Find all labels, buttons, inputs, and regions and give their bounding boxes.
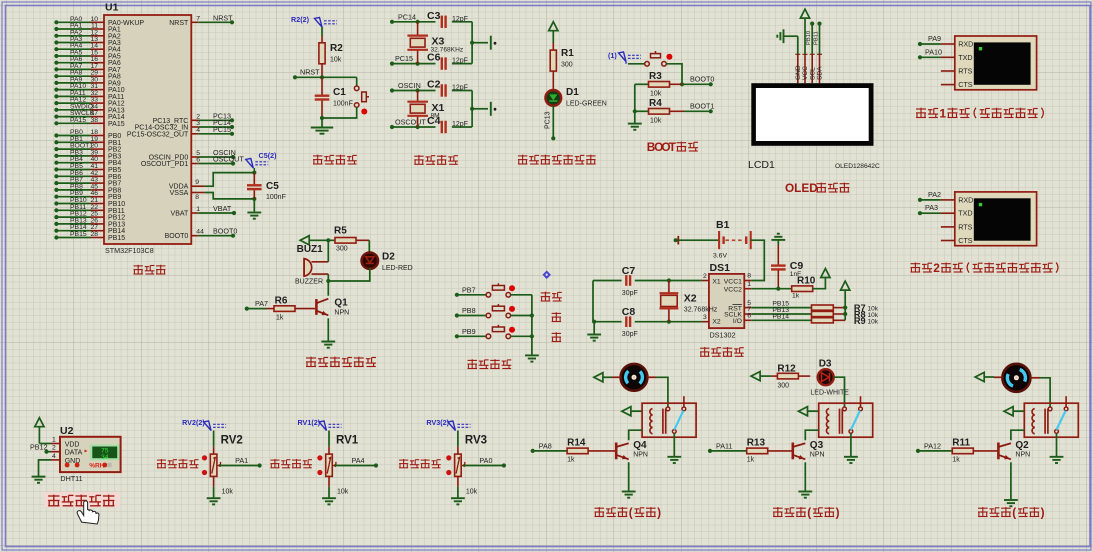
wire emitter to ground Q3 bbox=[804, 462, 806, 490]
node PC13 pin2 bbox=[153, 111, 234, 125]
potentiometer RV3 10k bbox=[446, 435, 487, 477]
node PC14 pin3 bbox=[135, 118, 235, 132]
svg-text:PA15: PA15 bbox=[70, 117, 86, 124]
svg-text:1k: 1k bbox=[567, 457, 575, 464]
svg-text:C1: C1 bbox=[333, 87, 346, 98]
svg-text:LED-WHITE: LED-WHITE bbox=[810, 390, 849, 397]
svg-text:44: 44 bbox=[196, 229, 204, 236]
svg-text:2: 2 bbox=[52, 445, 56, 452]
svg-text:VBAT: VBAT bbox=[213, 204, 232, 213]
svg-text:▸: ▸ bbox=[85, 449, 88, 455]
label crystal circuit 晶振电路 bbox=[414, 155, 458, 164]
resistor R4 10k bbox=[635, 98, 684, 125]
wire coil to collector Q2 bbox=[1011, 430, 1024, 440]
label 继电器(通风) bbox=[595, 506, 662, 520]
wire relay common to ground Q4 bbox=[673, 433, 675, 456]
svg-text:1: 1 bbox=[52, 437, 56, 444]
svg-text:%RH: %RH bbox=[89, 462, 104, 469]
wire button to C1 bottom bbox=[322, 107, 357, 118]
svg-text:X2: X2 bbox=[684, 293, 697, 305]
node blue junction marker bbox=[542, 270, 550, 278]
wire PB15 row bbox=[751, 301, 811, 308]
wire PB12 to DATA bbox=[30, 442, 51, 454]
potentiometer RV2 10k bbox=[202, 435, 243, 477]
svg-text:RV1: RV1 bbox=[336, 435, 359, 447]
probe R2(2) bbox=[291, 15, 337, 27]
svg-text:1k: 1k bbox=[276, 315, 284, 322]
display virtual terminal 2 bbox=[918, 190, 1037, 246]
wire R4 to BOOT1 terminal bbox=[684, 102, 714, 114]
node VSSA pin8 bbox=[170, 190, 205, 201]
svg-text:RV3: RV3 bbox=[465, 435, 487, 447]
svg-text:8: 8 bbox=[195, 194, 199, 201]
svg-text:(: ( bbox=[629, 506, 633, 520]
svg-text:3: 3 bbox=[703, 314, 707, 321]
svg-text:6: 6 bbox=[747, 313, 751, 320]
svg-text:10k: 10k bbox=[650, 118, 662, 125]
svg-text:U2: U2 bbox=[60, 425, 74, 437]
node PA port pins PA0-PA15 wires bbox=[54, 16, 144, 128]
svg-text:PA4: PA4 bbox=[352, 456, 365, 465]
svg-text:PB9: PB9 bbox=[462, 327, 476, 336]
svg-text:RTS: RTS bbox=[958, 222, 972, 231]
svg-text:D3: D3 bbox=[819, 359, 832, 370]
resistor R5 300 bbox=[334, 226, 369, 253]
capacitor C1 100nF bbox=[315, 77, 353, 120]
svg-text:(1): (1) bbox=[608, 51, 617, 60]
power arrow coil Q2 bbox=[1004, 407, 1024, 416]
svg-text:10k: 10k bbox=[222, 489, 234, 496]
power arrow OLED VCC bbox=[800, 9, 809, 18]
label BOOT circuit BOOT电路 bbox=[647, 140, 698, 154]
svg-text:X1: X1 bbox=[712, 278, 721, 285]
svg-text:R2: R2 bbox=[330, 43, 343, 54]
resistor R6 1k with PA7 bbox=[245, 296, 315, 322]
wire PB14 row bbox=[751, 313, 811, 320]
label 光照调节 bbox=[270, 459, 312, 468]
svg-text:2: 2 bbox=[703, 273, 707, 280]
ground relay common Q3 bbox=[844, 457, 858, 463]
crystal X2 32.768kHz bbox=[660, 278, 718, 323]
node NRST junction bbox=[293, 68, 357, 80]
ground BOOT circuit bbox=[628, 124, 642, 130]
wire NRST to button bbox=[356, 77, 358, 86]
LED D2 LED-RED bbox=[362, 252, 413, 272]
svg-text:VBAT: VBAT bbox=[171, 211, 189, 218]
svg-text:PB14: PB14 bbox=[772, 313, 789, 320]
label 减 bbox=[552, 332, 562, 341]
label R9 values bbox=[854, 316, 879, 326]
wire D2 to collector node bbox=[326, 268, 370, 283]
svg-text:VCC2: VCC2 bbox=[724, 286, 742, 293]
svg-text:PC15: PC15 bbox=[213, 125, 231, 134]
node BOOT0 pin44 bbox=[165, 227, 238, 241]
svg-text:): ) bbox=[657, 506, 661, 520]
svg-text:PA7: PA7 bbox=[255, 299, 268, 308]
svg-text:3.6V: 3.6V bbox=[713, 253, 727, 260]
ground RV3 bbox=[451, 498, 465, 504]
chip U2 DHT11 humidity sensor bbox=[51, 425, 121, 483]
svg-text:100nF: 100nF bbox=[266, 194, 286, 201]
resistor R1 300 bbox=[550, 48, 574, 71]
svg-text:): ) bbox=[836, 506, 840, 520]
wire power to R1 bbox=[552, 31, 554, 50]
svg-text:X2: X2 bbox=[712, 319, 721, 326]
svg-text:RV2: RV2 bbox=[221, 435, 243, 447]
svg-text:4: 4 bbox=[52, 453, 56, 460]
svg-text:PA9: PA9 bbox=[928, 34, 941, 43]
power arrow R10 bbox=[821, 269, 830, 278]
wire R1 to D1 bbox=[552, 71, 554, 90]
wire RV1 to ground bbox=[329, 476, 349, 497]
label 气体调节 bbox=[157, 459, 199, 468]
svg-text:NPN: NPN bbox=[633, 452, 648, 459]
svg-text:1k: 1k bbox=[747, 457, 755, 464]
svg-text:VCC: VCC bbox=[802, 66, 809, 80]
label OLED显示屏 bbox=[785, 181, 849, 195]
svg-text:PB15: PB15 bbox=[70, 231, 87, 238]
transistor Q1 NPN bbox=[315, 298, 349, 317]
svg-text:300: 300 bbox=[561, 62, 573, 69]
svg-text:OSCOUT: OSCOUT bbox=[213, 155, 244, 164]
ground C9 inverted bbox=[771, 234, 785, 240]
svg-text:OSCOUT_PD1: OSCOUT_PD1 bbox=[141, 161, 189, 168]
wire R7R8R9 common vertical bbox=[843, 290, 847, 320]
wire button to BOOT0 node bbox=[666, 64, 682, 85]
svg-text:PA11: PA11 bbox=[716, 441, 733, 450]
resistor R14 1k bbox=[531, 438, 615, 464]
svg-text:C3: C3 bbox=[427, 10, 441, 22]
svg-text:(: ( bbox=[1012, 506, 1016, 520]
svg-text:BOOT0: BOOT0 bbox=[690, 75, 714, 84]
svg-text:RXD: RXD bbox=[958, 195, 973, 204]
wire RV2 to ground bbox=[214, 476, 234, 497]
resistor R9 10k bbox=[812, 318, 846, 323]
svg-text:R13: R13 bbox=[747, 438, 766, 449]
svg-text:RV2(2): RV2(2) bbox=[182, 418, 205, 427]
svg-text:R11: R11 bbox=[952, 438, 970, 449]
wire R3 to R4 vertical bbox=[633, 84, 637, 113]
ground emitter Q3 bbox=[798, 492, 812, 498]
potentiometer RV1 10k bbox=[317, 435, 358, 477]
wire VSSA to C5 bottom bbox=[205, 193, 255, 199]
label 继电器(补光) bbox=[773, 506, 840, 520]
ground keys bbox=[525, 355, 539, 361]
LCD1 pin stubs GND VCC SCL SDA bbox=[795, 54, 824, 83]
wire OLED SCL pin PB10 bbox=[806, 22, 815, 55]
wire keys common vertical bbox=[530, 295, 534, 355]
svg-text:C5: C5 bbox=[266, 181, 279, 192]
svg-text:PC14: PC14 bbox=[398, 12, 416, 21]
svg-text:R10: R10 bbox=[797, 276, 816, 287]
wire probe to R2 bbox=[321, 27, 323, 43]
svg-text:VSSA: VSSA bbox=[170, 190, 189, 197]
label 独立按键 bbox=[468, 359, 512, 368]
svg-text:12pF: 12pF bbox=[452, 85, 468, 92]
relay Q4 coil contacts bbox=[642, 396, 696, 437]
svg-text:PA8: PA8 bbox=[539, 441, 552, 450]
wire probe to RV2 bbox=[213, 431, 215, 455]
wire wiper RV1 to PA4 bbox=[332, 456, 378, 468]
probe RV2(2) bbox=[182, 418, 226, 431]
chip DS1 DS1302 clock bbox=[702, 262, 751, 340]
svg-text:1: 1 bbox=[939, 107, 946, 121]
label R8 values bbox=[854, 309, 879, 319]
ground OLED bbox=[777, 29, 783, 43]
node VBAT pin1 bbox=[171, 204, 237, 218]
svg-text:8: 8 bbox=[747, 273, 751, 280]
wire RV3 to ground bbox=[458, 476, 478, 497]
resistor R2 10k bbox=[319, 43, 343, 64]
capacitor C9 1nF bbox=[771, 240, 803, 289]
svg-text:1k: 1k bbox=[952, 457, 960, 464]
power arrow for D1 bbox=[549, 22, 558, 31]
transistor Q3 NPN bbox=[792, 440, 825, 459]
wire emitter to ground Q4 bbox=[628, 462, 630, 490]
svg-text:10k: 10k bbox=[330, 57, 342, 64]
svg-text:10k: 10k bbox=[868, 319, 879, 326]
svg-text:PC15-OSC32_OUT: PC15-OSC32_OUT bbox=[127, 131, 189, 138]
svg-text:STM32F103C8: STM32F103C8 bbox=[105, 246, 154, 255]
wire relay common to ground Q3 bbox=[850, 433, 852, 456]
button key PB8 bbox=[455, 304, 532, 318]
ground clock left bbox=[587, 322, 601, 341]
ground emitter Q2 bbox=[1004, 500, 1018, 506]
svg-text:C2: C2 bbox=[427, 79, 441, 91]
wire C5 to ground bbox=[253, 199, 255, 212]
wire GND pin DHT11 bbox=[39, 460, 52, 476]
svg-text:10k: 10k bbox=[466, 489, 478, 496]
wire coil to collector Q3 bbox=[805, 430, 818, 440]
wire PB13 row bbox=[751, 307, 811, 314]
ground reset circuit bbox=[311, 128, 333, 134]
power arrow motor1 bbox=[594, 373, 621, 382]
node PC15 pin4 bbox=[127, 125, 234, 139]
power arrow coil Q4 bbox=[622, 407, 642, 416]
svg-text:R6: R6 bbox=[275, 296, 288, 307]
transistor Q4 NPN bbox=[615, 440, 648, 459]
probe RV1(2) bbox=[298, 418, 342, 431]
probe C5(2) bbox=[246, 151, 277, 173]
svg-text:U1: U1 bbox=[105, 2, 119, 14]
svg-text:DHT11: DHT11 bbox=[60, 474, 82, 483]
ground relay common Q4 bbox=[667, 457, 681, 463]
capacitor C5 100nF bbox=[247, 171, 286, 202]
svg-text:PA15: PA15 bbox=[108, 121, 125, 128]
wire probe to RV3 bbox=[457, 431, 459, 455]
svg-text:BUZZER: BUZZER bbox=[295, 279, 323, 286]
svg-text:BUZ1: BUZ1 bbox=[297, 244, 324, 255]
svg-text:SCL: SCL bbox=[809, 67, 816, 80]
motor pump relay3 bbox=[1002, 364, 1030, 392]
svg-text:DATA: DATA bbox=[65, 450, 83, 457]
svg-text:RXD: RXD bbox=[958, 40, 973, 49]
svg-text:B1: B1 bbox=[716, 219, 730, 231]
node BOOT0 junction bbox=[680, 75, 714, 87]
wire D3 to relay NO bbox=[834, 377, 845, 407]
svg-text:300: 300 bbox=[777, 383, 789, 390]
svg-text:T: T bbox=[669, 140, 677, 154]
cursor hand icon bbox=[77, 501, 99, 524]
svg-text:38: 38 bbox=[90, 117, 98, 124]
svg-text:D2: D2 bbox=[382, 252, 395, 263]
svg-text:10k: 10k bbox=[337, 489, 349, 496]
svg-text:LED-RED: LED-RED bbox=[382, 265, 413, 272]
svg-text:): ) bbox=[1041, 506, 1045, 520]
ground Q1 bbox=[321, 342, 335, 348]
label R7 values bbox=[854, 303, 879, 313]
svg-text:12pF: 12pF bbox=[452, 58, 468, 65]
node NRST pin7 bbox=[169, 13, 234, 27]
wire OLED GND pin bbox=[797, 36, 799, 54]
svg-text:PC13: PC13 bbox=[545, 111, 552, 129]
resistor R3 10k bbox=[635, 71, 682, 98]
wire VDDA to C5 top bbox=[205, 173, 255, 187]
svg-text:32.768KHz: 32.768KHz bbox=[431, 47, 464, 54]
wire motor1 to relay NO bbox=[647, 377, 668, 407]
wire emitter to ground Q2 bbox=[1010, 462, 1012, 499]
wire probe to RV1 bbox=[328, 431, 330, 455]
svg-text:1: 1 bbox=[196, 206, 200, 213]
svg-text:PA12: PA12 bbox=[924, 441, 941, 450]
node OSCIN pin5 bbox=[149, 148, 236, 162]
svg-text:DS1: DS1 bbox=[710, 262, 731, 274]
svg-text:PA3: PA3 bbox=[925, 203, 938, 212]
svg-text:9: 9 bbox=[195, 179, 199, 186]
svg-text:LCD1: LCD1 bbox=[748, 159, 775, 171]
label 加 bbox=[552, 312, 562, 321]
svg-text:R9: R9 bbox=[854, 316, 866, 326]
wire OLED VCC pin bbox=[804, 18, 806, 54]
crystal X3 32.768KHz with C3 C6 bbox=[390, 10, 497, 70]
svg-text:NRST: NRST bbox=[169, 20, 189, 27]
button BOOT select bbox=[626, 51, 672, 66]
wire R2 to NRST node bbox=[321, 64, 323, 78]
power arrow R7R8R9 bbox=[841, 281, 850, 290]
svg-text:2: 2 bbox=[933, 261, 940, 275]
resistor R7 10k bbox=[812, 305, 846, 310]
svg-text:RV1(2): RV1(2) bbox=[298, 418, 321, 427]
probe (1) bbox=[608, 51, 641, 62]
svg-text:C8: C8 bbox=[622, 306, 636, 318]
svg-text:C5(2): C5(2) bbox=[259, 151, 278, 160]
label 水位调节 bbox=[399, 459, 441, 468]
svg-text:1: 1 bbox=[747, 281, 751, 288]
svg-text:I/O: I/O bbox=[733, 318, 742, 325]
svg-text:NPN: NPN bbox=[1015, 452, 1030, 459]
svg-text:BOOT1: BOOT1 bbox=[690, 102, 714, 111]
transistor Q2 NPN bbox=[997, 440, 1030, 459]
wire VCC2 row bbox=[751, 287, 792, 291]
label 串口2窗口（模拟语音识别端） bbox=[911, 261, 1059, 275]
wire R5 to D2 bbox=[368, 240, 370, 253]
label main chip 主芯片 bbox=[134, 265, 166, 274]
svg-text:PB15: PB15 bbox=[108, 235, 125, 242]
svg-text:Q3: Q3 bbox=[810, 440, 824, 451]
battery B1 3.6V bbox=[674, 219, 751, 260]
ground RV2 bbox=[207, 498, 221, 504]
svg-text:34: 34 bbox=[101, 454, 109, 461]
svg-text:R3: R3 bbox=[649, 71, 662, 82]
svg-text:PA2: PA2 bbox=[928, 190, 941, 199]
svg-text:12pF: 12pF bbox=[452, 16, 468, 23]
svg-text:300: 300 bbox=[336, 246, 348, 253]
svg-text:GND: GND bbox=[795, 65, 802, 80]
label 声光报警电路 bbox=[306, 357, 376, 367]
wire wiper RV2 to PA1 bbox=[217, 456, 262, 468]
svg-text:Q4: Q4 bbox=[633, 440, 647, 451]
svg-text:4: 4 bbox=[196, 127, 200, 134]
wire coil to collector Q4 bbox=[629, 430, 642, 440]
svg-text:R14: R14 bbox=[567, 438, 586, 449]
label 设置 bbox=[541, 292, 562, 301]
label indicator 程序运行指示灯 bbox=[518, 155, 596, 164]
svg-text:R1: R1 bbox=[561, 48, 574, 59]
svg-text:30pF: 30pF bbox=[622, 331, 638, 338]
svg-text:SDA: SDA bbox=[817, 66, 824, 80]
svg-text:CTS: CTS bbox=[958, 236, 973, 245]
display virtual terminal 1 bbox=[918, 34, 1037, 90]
svg-text:NRST: NRST bbox=[213, 13, 233, 22]
resistor R12 300 bbox=[771, 364, 810, 390]
label 串口1窗口（模拟手机端） bbox=[916, 107, 1043, 121]
svg-text:Q1: Q1 bbox=[334, 298, 348, 309]
svg-text:PC15: PC15 bbox=[395, 54, 413, 63]
LED D3 LED-WHITE bbox=[810, 359, 849, 397]
buzzer BUZ1 bbox=[295, 244, 328, 286]
svg-text:10k: 10k bbox=[650, 91, 662, 98]
svg-text:CTS: CTS bbox=[958, 80, 973, 89]
wire C1 to ground bbox=[321, 118, 323, 127]
svg-text:NPN: NPN bbox=[334, 310, 349, 317]
svg-text:OLED: OLED bbox=[785, 181, 818, 195]
svg-text:LED-GREEN: LED-GREEN bbox=[566, 101, 607, 108]
power arrow R12 bbox=[751, 372, 771, 381]
svg-text:BOOT0: BOOT0 bbox=[165, 233, 189, 240]
resistor R8 10k bbox=[812, 311, 846, 316]
wire Q1 emitter to ground bbox=[327, 318, 329, 341]
svg-text:12pF: 12pF bbox=[452, 121, 468, 128]
wire motor3 to relay NO bbox=[1030, 378, 1050, 407]
svg-text:OSCOUT: OSCOUT bbox=[395, 118, 426, 127]
svg-text:1k: 1k bbox=[792, 293, 800, 300]
svg-text:100nF: 100nF bbox=[333, 101, 353, 108]
ground under C5 bbox=[247, 213, 261, 219]
relay Q3 coil contacts bbox=[819, 396, 873, 437]
probe RV3(2) bbox=[426, 418, 470, 431]
wire vcc to buzzer top bbox=[327, 240, 329, 261]
capacitor C7 30pF bbox=[593, 265, 702, 297]
resistor R11 1k bbox=[916, 438, 997, 464]
svg-text:Q2: Q2 bbox=[1015, 440, 1029, 451]
wire to ground BOOT bbox=[634, 111, 636, 123]
svg-text:R12: R12 bbox=[777, 364, 796, 375]
power arrow motor3 bbox=[975, 372, 1002, 381]
svg-text:NPN: NPN bbox=[810, 452, 825, 459]
label 温湿度模块 highlighted bbox=[44, 492, 120, 508]
wire D1 to PC13 terminal bbox=[545, 106, 556, 141]
svg-text:TXD: TXD bbox=[958, 209, 972, 218]
svg-text:PB10: PB10 bbox=[806, 31, 812, 45]
wire R10 to power bbox=[813, 278, 826, 289]
button key PB7 bbox=[455, 283, 532, 297]
svg-text:28: 28 bbox=[90, 231, 98, 238]
resistor R10 1k bbox=[792, 276, 816, 300]
op-amp U1 main MCU STM32F103C8 body bbox=[104, 2, 191, 256]
svg-text:R2(2): R2(2) bbox=[291, 15, 310, 24]
svg-text:6: 6 bbox=[196, 157, 200, 164]
wire vcc to R5 bbox=[309, 238, 334, 242]
